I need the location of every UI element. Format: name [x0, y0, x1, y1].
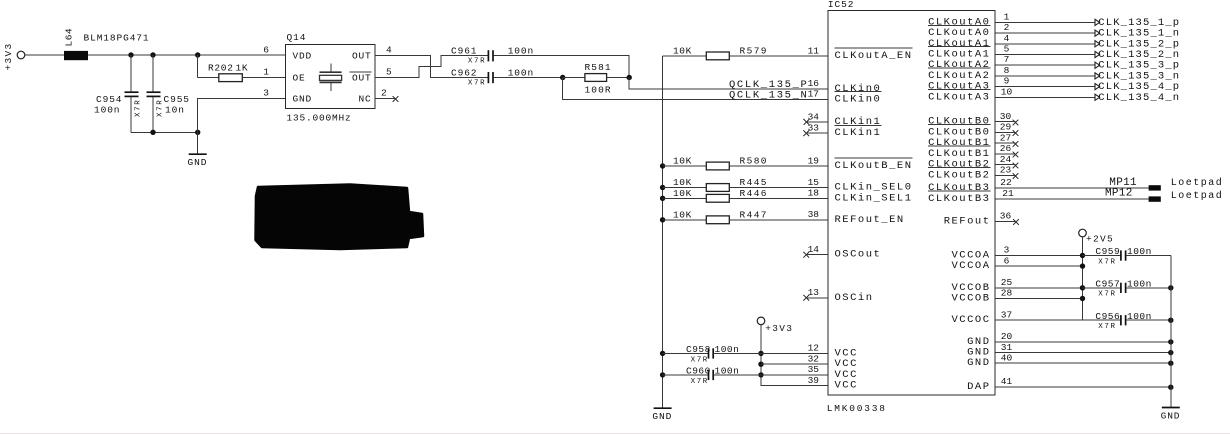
svg-text:15: 15 — [808, 177, 820, 188]
junction node row25 — [1080, 285, 1085, 290]
pin name CLKin0 (left, row 88.8) — [835, 83, 882, 95]
svg-text:X7R: X7R — [468, 79, 486, 87]
svg-text:16: 16 — [808, 78, 820, 89]
pin name CLKoutB2 (right, row 164.7) — [928, 159, 990, 171]
ferrite bead L64 — [64, 28, 89, 60]
svg-text:4: 4 — [386, 45, 392, 56]
svg-text:11: 11 — [808, 45, 820, 56]
pin name VCCOB (right, row 298.5) — [951, 293, 990, 305]
svg-text:6: 6 — [1004, 255, 1010, 266]
pin name REFout (right, row 221.4) — [944, 215, 991, 227]
wire VCCOA pin3 row — [995, 255, 1083, 257]
junction node R202/GND branch tap — [195, 52, 200, 57]
pin name CLKoutB1 (right, row 143.2) — [928, 137, 990, 149]
junction node R581 right — [627, 75, 632, 80]
capacitor C962 100n — [451, 67, 534, 87]
svg-text:27: 27 — [1000, 132, 1011, 143]
svg-text:100n: 100n — [1127, 246, 1152, 257]
svg-text:CLKin0: CLKin0 — [835, 93, 882, 105]
svg-text:31: 31 — [1001, 342, 1013, 353]
pin name CLKoutB3 (right, row 198.9) — [928, 191, 990, 205]
svg-text:GND: GND — [1161, 410, 1181, 421]
junction node right rail C956 — [1168, 318, 1173, 323]
wire GND pin 40 to rail — [995, 362, 1171, 364]
svg-text:R581: R581 — [585, 62, 612, 73]
svg-text:C957: C957 — [1095, 279, 1120, 290]
svg-text:17: 17 — [808, 89, 819, 100]
junction node C955 bottom — [150, 130, 155, 135]
svg-text:X7R: X7R — [468, 57, 486, 65]
svg-text:39: 39 — [808, 375, 820, 386]
svg-text:36: 36 — [1000, 210, 1012, 221]
pin name CLKoutB1 (right, row 154.0) — [928, 146, 990, 160]
pin name VCC (left, row 364.2) — [835, 358, 858, 370]
wire OUT pin4 crossover to C962 row — [375, 56, 488, 78]
wire L64 to oscillator VDD pin 6 — [88, 54, 285, 56]
svg-text:X7R: X7R — [1098, 258, 1116, 266]
wire VCCOA pin6 stub — [995, 265, 1083, 267]
ground symbol (oscillator decoupling) — [188, 132, 208, 168]
wire terminal to L64 — [25, 54, 64, 56]
svg-text:C959: C959 — [1095, 246, 1120, 257]
junction node VCC row12 — [758, 351, 763, 356]
junction node C955 tap — [150, 52, 155, 57]
power terminal +3V3 (VCC) — [757, 317, 793, 334]
svg-text:19: 19 — [808, 155, 820, 166]
resistor R446 10K — [660, 196, 665, 201]
svg-text:10K: 10K — [673, 46, 692, 57]
svg-text:+3V3: +3V3 — [3, 42, 14, 70]
no-connect stub (left) — [803, 119, 828, 125]
svg-text:R445: R445 — [740, 177, 768, 188]
no-connect stub pin 27 — [995, 141, 1018, 147]
wire +2V5 down to VCCO pins — [1082, 237, 1084, 320]
svg-text:R580: R580 — [740, 156, 768, 167]
pin name CLKoutB2 (right, row 175.4) — [928, 168, 990, 182]
svg-text:100R: 100R — [585, 85, 612, 96]
svg-text:Loetpad: Loetpad — [1171, 177, 1224, 189]
ground symbol (rail bottom left) — [652, 408, 672, 422]
svg-text:100n: 100n — [715, 344, 740, 355]
svg-text:CLKoutB_EN: CLKoutB_EN — [835, 160, 913, 172]
no-connect stub pin 30 — [995, 120, 1018, 126]
wire /OUT pin5 crossover to C961 row — [375, 56, 488, 78]
svg-text:C960: C960 — [686, 366, 711, 377]
svg-text:5: 5 — [1004, 44, 1010, 55]
junction node row3 — [1080, 253, 1085, 258]
svg-text:135.000MHz: 135.000MHz — [287, 112, 352, 123]
junction node rail C960 — [660, 372, 665, 377]
svg-text:32: 32 — [808, 354, 820, 365]
svg-text:26: 26 — [1000, 143, 1012, 154]
capacitor C958 100n — [663, 344, 828, 364]
resistor R445 10K — [660, 185, 665, 190]
svg-text:CLKin_SEL1: CLKin_SEL1 — [835, 192, 913, 204]
pin name OSCout (left, row 254.6) — [835, 249, 882, 261]
wire pin 21 to solder pad MP12 — [995, 198, 1149, 200]
svg-text:OUT: OUT — [352, 51, 372, 62]
pin name VCCOC (right, row 320.2) — [951, 314, 990, 326]
pin name CLKoutA1 (right, row 43.8) — [928, 38, 990, 50]
no-connect stub pin 36 REFout — [995, 219, 1019, 225]
svg-text:29: 29 — [1000, 122, 1012, 133]
wire output pin 7 to net CLK_135_3_p — [995, 62, 1100, 68]
svg-text:10K: 10K — [673, 156, 692, 167]
svg-text:21: 21 — [1002, 188, 1014, 199]
wire DAP pin 41 to rail — [995, 386, 1171, 388]
junction node VCC row35 — [758, 372, 763, 377]
wire output pin 4 to net CLK_135_2_p — [995, 41, 1100, 47]
svg-text:VDD: VDD — [293, 51, 313, 62]
svg-text:25: 25 — [1001, 277, 1013, 288]
pin name CLKoutA3 (right, row 97.3) — [928, 90, 990, 104]
pin name CLKoutA1 (right, row 54.5) — [928, 47, 990, 61]
pin name VCC (left, row 385.7) — [835, 380, 858, 392]
right GND rail vertical — [1170, 256, 1172, 408]
capacitor C957 100n — [1083, 279, 1171, 299]
svg-text:10n: 10n — [165, 104, 185, 115]
svg-text:1: 1 — [263, 67, 269, 78]
junction node R581 left — [560, 75, 565, 80]
svg-text:IC52: IC52 — [828, 0, 854, 10]
svg-text:VCCOB: VCCOB — [951, 293, 990, 305]
svg-text:35: 35 — [808, 364, 820, 375]
svg-text:C962: C962 — [451, 67, 477, 78]
svg-text:22: 22 — [1000, 177, 1012, 188]
svg-text:100n: 100n — [94, 104, 120, 115]
svg-text:37: 37 — [1001, 309, 1012, 320]
pin name VCC (left, row 353.4) — [835, 347, 858, 359]
junction node right rail C957 — [1168, 285, 1173, 290]
svg-text:CLKoutB2: CLKoutB2 — [928, 169, 990, 181]
wire output pin 8 to net CLK_135_3_n — [995, 73, 1100, 79]
resistor R580 10K — [660, 163, 665, 168]
wire +3V3 rail down to R202 — [197, 55, 199, 78]
svg-text:1K: 1K — [236, 62, 249, 73]
pin name CLKoutB0 (right, row 132.5) — [928, 125, 990, 139]
svg-text:33: 33 — [808, 123, 820, 134]
no-connect stub pin 23 — [995, 173, 1018, 179]
solder pad MP12 (Loetpad) — [1105, 188, 1223, 203]
wire VCCOB pin28 stub — [995, 298, 1083, 300]
junction node GND branch — [195, 130, 200, 135]
junction node C954 tap — [128, 52, 133, 57]
svg-text:10K: 10K — [673, 177, 692, 188]
junction node rail row 20 — [1168, 339, 1173, 344]
svg-text:Q14: Q14 — [287, 32, 307, 43]
svg-text:7: 7 — [1004, 54, 1010, 65]
resistor R579 10K — [663, 46, 828, 60]
junction node rail row 41 — [1168, 385, 1173, 390]
svg-text:OSCout: OSCout — [835, 249, 882, 261]
svg-text:X7R: X7R — [157, 99, 165, 117]
svg-text:6: 6 — [263, 45, 269, 56]
junction node VCC row32 — [758, 362, 763, 367]
wire C961 to junction column — [494, 56, 630, 78]
pin name CLKoutA2 (right, row 65.2) — [928, 59, 990, 71]
svg-text:100n: 100n — [508, 45, 534, 56]
pin name CLKoutA_EN (left, row 56) — [835, 48, 913, 62]
svg-text:Loetpad: Loetpad — [1171, 190, 1224, 202]
svg-text:10K: 10K — [673, 210, 692, 221]
pin name CLKoutA0 (right, row 22.4) — [928, 16, 990, 28]
capacitor C959 100n — [1083, 246, 1171, 266]
svg-text:CLKoutB3: CLKoutB3 — [928, 193, 990, 205]
ground symbol (right rail) — [1161, 408, 1181, 422]
pin name GND (right, row 341.9) — [967, 336, 990, 348]
svg-text:20: 20 — [1001, 331, 1013, 342]
svg-text:18: 18 — [808, 188, 820, 199]
wire to CLKin0 pin16 (QCLK_135_P) — [629, 78, 828, 89]
svg-text:NC: NC — [358, 94, 371, 105]
svg-text:VCCOC: VCCOC — [951, 314, 990, 326]
no-connect stub (left) — [803, 295, 828, 301]
svg-text:OE: OE — [293, 73, 306, 84]
svg-text:30: 30 — [1000, 111, 1012, 122]
svg-text:C958: C958 — [686, 344, 711, 355]
wire GND pin 31 to rail — [995, 352, 1171, 354]
junction node row28 — [1080, 296, 1085, 301]
pin name CLKoutB3 (right, row 187.8) — [928, 182, 990, 194]
svg-text:C961: C961 — [451, 45, 477, 56]
pin name GND (right, row 363.2) — [967, 357, 990, 369]
svg-text:R579: R579 — [740, 46, 768, 57]
svg-text:CLKin1: CLKin1 — [835, 116, 882, 128]
svg-text:34: 34 — [808, 111, 820, 122]
svg-text:VCCOA: VCCOA — [951, 260, 990, 272]
svg-text:X7R: X7R — [135, 99, 143, 117]
svg-text:VCC: VCC — [835, 380, 858, 392]
svg-text:100n: 100n — [1127, 311, 1152, 322]
svg-text:2: 2 — [1004, 22, 1010, 33]
svg-text:CLK_135_4_n: CLK_135_4_n — [1098, 92, 1180, 104]
svg-text:QCLK_135_N: QCLK_135_N — [729, 90, 809, 102]
pin name OSCin (left, row 297.9) — [835, 292, 874, 304]
no-connect stub (left) — [803, 130, 828, 136]
pin name CLKin_SEL0 (left, row 187.5) — [835, 182, 913, 194]
svg-text:100n: 100n — [1127, 279, 1152, 290]
svg-text:28: 28 — [1001, 288, 1013, 299]
svg-text:BLM18PG471: BLM18PG471 — [84, 33, 150, 44]
svg-text:L64: L64 — [64, 28, 75, 47]
svg-text:8: 8 — [1004, 65, 1010, 76]
svg-text:10: 10 — [1001, 86, 1013, 97]
svg-text:4: 4 — [1004, 33, 1010, 44]
wire capacitor bottoms to GND node — [131, 131, 198, 133]
pull-down rail vertical — [662, 56, 664, 408]
svg-text:+3V3: +3V3 — [765, 323, 793, 334]
resistor R581 100R termination — [563, 62, 630, 96]
no-connect stub pin 24 — [995, 163, 1018, 169]
pin name VCCOA (right, row 266.1) — [951, 260, 990, 272]
pin name VCCOA (right, row 255.5) — [951, 250, 990, 262]
pin name CLKin0 (left, row 99.3) — [835, 92, 882, 106]
svg-text:X7R: X7R — [1098, 291, 1116, 299]
svg-text:14: 14 — [808, 244, 820, 255]
junction node rail row 40 — [1168, 361, 1173, 366]
capacitor C961 100n — [451, 45, 534, 65]
svg-text:12: 12 — [808, 343, 820, 354]
capacitor C954 100n — [94, 55, 143, 132]
pin name REFout_EN (left, row 219.8) — [835, 214, 905, 226]
crystal symbol inside Q14 — [320, 63, 342, 91]
svg-text:R447: R447 — [740, 210, 768, 221]
pin name VCC (left, row 374.9) — [835, 369, 858, 381]
svg-text:24: 24 — [1000, 154, 1012, 165]
junction node rail C958 — [660, 351, 665, 356]
capacitor C960 100n — [663, 366, 828, 386]
wire output pin 10 to net CLK_135_4_n — [995, 94, 1100, 100]
svg-text:X7R: X7R — [691, 356, 709, 364]
IC U-block IC52 LMK00338 — [828, 11, 995, 396]
no-connect stub pin 2 — [375, 96, 398, 102]
svg-text:100n: 100n — [715, 366, 740, 377]
svg-text:DAP: DAP — [967, 381, 990, 393]
solder pad MP11 (Loetpad) — [1109, 177, 1223, 191]
power terminal +3V3 (left input) — [3, 42, 25, 70]
resistor R447 10K — [660, 217, 665, 222]
pin name CLKin1 (left, row 133.2) — [835, 125, 882, 139]
wire VCC row32 — [761, 363, 828, 365]
svg-text:23: 23 — [1000, 165, 1012, 176]
capacitor C955 10n — [147, 55, 190, 132]
svg-text:REFout_EN: REFout_EN — [835, 214, 905, 226]
svg-text:+2V5: +2V5 — [1086, 233, 1114, 244]
svg-text:CLKoutA3: CLKoutA3 — [928, 91, 990, 103]
pin name CLKoutA2 (right, row 75.9) — [928, 68, 990, 82]
svg-text:41: 41 — [1001, 376, 1013, 387]
pin name CLKin_SEL1 (left, row 198.3) — [835, 192, 913, 204]
redaction blob (blacked-out area) — [256, 185, 424, 250]
capacitor C956 100n — [1083, 311, 1171, 331]
svg-text:9: 9 — [1004, 76, 1010, 87]
pin name CLKoutB0 (right, row 121.7) — [928, 116, 990, 128]
wire output pin 9 to net CLK_135_4_p — [995, 84, 1100, 90]
svg-text:GND: GND — [652, 411, 672, 422]
svg-text:GND: GND — [967, 357, 990, 369]
wire +3V3 down to VCC pins — [761, 325, 828, 386]
svg-text:R202: R202 — [208, 62, 234, 73]
wire pin 22 to solder pad MP11 — [995, 187, 1149, 189]
pin name CLKoutA3 (right, row 86.6) — [928, 81, 990, 93]
svg-text:1: 1 — [1004, 11, 1010, 22]
svg-text:CLKin1: CLKin1 — [835, 127, 882, 139]
power terminal +2V5 — [1079, 229, 1114, 244]
junction node rail row 31 — [1168, 350, 1173, 355]
pin name CLKin1 (left, row 122) — [835, 116, 882, 128]
pin name CLKoutB_EN (left, row 166) — [835, 158, 913, 172]
pin name GND (right, row 352.6) — [967, 347, 990, 359]
svg-text:3: 3 — [1004, 245, 1010, 256]
svg-text:13: 13 — [808, 287, 820, 298]
pin name DAP (right, row 387.2) — [967, 381, 990, 393]
svg-text:38: 38 — [808, 209, 820, 220]
wire output pin 2 to net CLK_135_1_n — [995, 30, 1100, 36]
faint bottom border line — [0, 433, 1230, 435]
svg-text:OSCin: OSCin — [835, 292, 874, 304]
wire C962 to R581 left junction — [494, 77, 563, 79]
no-connect stub pin 26 — [995, 152, 1018, 158]
svg-text:2: 2 — [381, 87, 387, 98]
svg-text:X7R: X7R — [1098, 323, 1116, 331]
svg-text:OUT: OUT — [352, 73, 372, 84]
pin name VCCOB (right, row 287.8) — [951, 282, 990, 294]
junction node row6 — [1080, 263, 1085, 268]
svg-text:MP12: MP12 — [1105, 188, 1133, 200]
svg-text:GND: GND — [293, 94, 313, 105]
wire output pin 1 to net CLK_135_1_p — [995, 19, 1100, 25]
svg-text:LMK00338: LMK00338 — [827, 403, 887, 414]
oscillator Q14 135.000MHz — [285, 32, 375, 123]
wire output pin 5 to net CLK_135_2_n — [995, 51, 1100, 57]
wire GND pin 20 to rail — [995, 341, 1171, 343]
wire VCCOC pin37 row — [995, 319, 1083, 321]
svg-text:40: 40 — [1001, 352, 1013, 363]
svg-text:X7R: X7R — [691, 378, 709, 386]
resistor R202 1K — [198, 62, 286, 81]
wire oscillator GND pin 3 to ground — [198, 99, 286, 133]
svg-text:CLKoutA_EN: CLKoutA_EN — [835, 50, 913, 62]
svg-text:10K: 10K — [673, 188, 692, 199]
no-connect stub pin 29 — [995, 130, 1018, 136]
svg-text:100n: 100n — [508, 67, 534, 78]
svg-text:REFout: REFout — [944, 215, 991, 227]
wire VCCOB pin25 row — [995, 287, 1083, 289]
svg-text:C956: C956 — [1095, 311, 1120, 322]
svg-text:5: 5 — [386, 67, 392, 78]
svg-text:3: 3 — [263, 87, 269, 98]
svg-text:R446: R446 — [740, 188, 768, 199]
wire to /CLKin0 pin17 (QCLK_135_N) — [563, 78, 828, 100]
no-connect stub (left) — [803, 252, 828, 258]
pin name CLKoutA0 (right, row 33.1) — [928, 25, 990, 39]
svg-text:GND: GND — [188, 157, 208, 168]
